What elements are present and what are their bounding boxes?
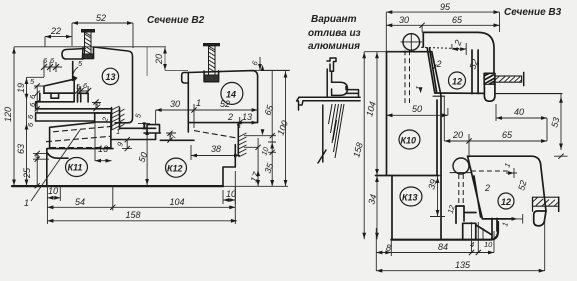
frame 13 body outline [94,47,133,123]
dim chain x37.2 [33,86,49,186]
lower screw shank dashed [459,174,463,204]
svg-text:К11: К11 [68,163,83,173]
dim 120 vertical [13,47,15,186]
frame 14 left tab [182,73,189,84]
callout circle 13 [102,68,118,84]
svg-text:К10: К10 [401,136,417,146]
callout circle K12 [166,158,187,177]
block K12 top ledges [112,133,161,140]
quarter hatched face [237,124,239,156]
gap dashed line lower sash [471,170,510,172]
callout circle 12 bottom [498,193,514,209]
frame sill band double line [36,109,112,121]
dim 158 vertical [364,52,400,240]
svg-text:63: 63 [16,144,26,154]
svg-text:158: 158 [125,210,140,220]
sash 12 top outline [423,32,494,72]
dim 2 top gap [452,43,466,55]
frame 13 left lower edge [72,62,74,81]
frame head profile 13 top tab [62,49,85,60]
svg-text:Вариант: Вариант [311,14,357,25]
block K13 outline [392,176,441,240]
screw 2 (anchor in frame 14) [204,44,220,82]
dim chain x258 [244,138,258,187]
dim 9 [122,140,132,149]
frame 13 hatched right face [112,108,120,130]
dim 50 [387,108,448,115]
svg-text:2: 2 [227,112,233,122]
screw shank dashed into wall [405,50,410,103]
dim 50 vertical [146,128,148,185]
svg-text:20: 20 [452,130,463,140]
svg-text:65: 65 [452,15,463,25]
drip hook on sash 12 [484,85,495,101]
screw head top (right drawing) [401,33,423,51]
svg-text:30: 30 [170,99,180,109]
block K11 outline [47,149,113,186]
dim chain x26.5 [27,77,45,186]
svg-text:95: 95 [440,2,451,12]
lower sash drip shoe [534,211,546,226]
drip right clip bar [346,87,359,98]
svg-text:104: 104 [169,197,184,207]
sash 12 inner glazing lines [472,50,478,94]
sash rail groove notch [40,93,74,102]
dim 38 [191,145,240,160]
dim 1 lower tick [506,214,523,224]
baseline under blocks [12,185,223,187]
dim 22 [45,37,72,47]
svg-text:Сечение В2: Сечение В2 [147,15,205,26]
screw head bottom (right drawing) [450,158,471,174]
dim 1 upper tick [506,168,517,178]
callout circle K13 [400,187,422,206]
svg-text:Сечение В3: Сечение В3 [504,7,562,18]
svg-text:52: 52 [220,99,230,109]
lower left step piece [456,206,476,223]
dim 39 vertical [440,176,442,217]
svg-text:52: 52 [96,13,106,23]
svg-text:2: 2 [436,59,442,69]
dim 40 [496,104,547,141]
dim 16 [95,123,112,161]
svg-text:120: 120 [3,107,13,122]
lower sash bottom step pieces [463,218,497,239]
glazing bead hatched block top [484,73,495,85]
svg-text:1: 1 [24,198,29,208]
block 2 step under frame [95,113,111,122]
lower sash 12 outline [468,156,546,219]
svg-text:22: 22 [50,26,61,36]
drip support ledge [160,139,194,141]
svg-text:12: 12 [452,77,462,87]
svg-text:14: 14 [226,90,236,100]
threshold ledge line [120,127,156,129]
short ledge left of sash bottom [433,95,444,97]
block K12 right notch [223,145,235,187]
dim 2-13 [236,117,258,128]
svg-text:19: 19 [16,83,26,93]
frame 13 screw slot walls [83,47,94,59]
svg-text:38: 38 [211,144,221,154]
leader 2 right sash [433,65,437,70]
callout circle 12 top [449,72,466,89]
window sill board dashed outline [50,122,111,148]
svg-text:К12: К12 [167,164,183,174]
leader 1 [31,130,80,201]
svg-text:13: 13 [106,72,116,82]
glazing bolt bottom right [533,197,559,213]
sash lower bottom line to right [495,93,562,95]
dim 30-52 line [156,104,258,128]
callout circle K10 [399,130,420,149]
drip clip angle piece [327,58,336,71]
dim 135 [376,218,544,271]
svg-text:К13: К13 [402,193,418,203]
dim chain x272 [244,136,276,153]
dim 6-6 top small [44,60,62,77]
dim 6 small rotated near x96 [92,101,101,109]
frame 14 body [188,71,257,132]
dim 5-6 small on bump [78,85,89,93]
callout circle K11 [66,158,88,177]
packing shim rect [147,125,160,133]
svg-text:10: 10 [226,189,236,199]
dim 53 vertical [554,94,568,157]
dim 10 bottom left [47,186,60,201]
sash 12 left upper edge [423,32,436,92]
svg-text:2: 2 [484,183,490,193]
svg-text:54: 54 [75,197,85,207]
svg-text:30: 30 [399,15,409,25]
casing bump 5-6 [78,93,89,102]
svg-text:40: 40 [514,107,524,117]
screw 1 (anchor in frame 13) [82,30,95,59]
svg-text:10: 10 [48,186,58,196]
svg-text:13: 13 [242,112,252,122]
svg-text:4: 4 [470,240,474,249]
svg-text:135: 135 [455,260,471,270]
dim 100 line [261,71,289,187]
dim 104-34 vertical [376,52,378,240]
svg-text:65: 65 [502,130,513,140]
extra arrows [258,64,274,186]
frame 14 screw slot [204,71,219,82]
level reference line y46.8 [14,46,166,48]
drip horizontal flange [299,97,360,101]
dim 95 [386,12,499,51]
dim 10 notch [223,171,235,204]
drip clip bump [332,82,348,95]
dim 65 line x272 + 6 mini dim [252,57,290,187]
dim 30-65 [386,25,499,32]
sash top rail sloped piece [44,79,74,93]
hatching: quarter face right of frame 14 [239,133,247,157]
drip nose hook [297,97,303,110]
glazing bolt top right [495,72,524,86]
wall block K10 outline [376,52,440,176]
svg-text:20: 20 [154,54,164,65]
wall edge below drip [318,105,326,163]
svg-text:1: 1 [116,127,120,136]
dim 8-84-4-10 bottom line [376,222,494,271]
dim 7 [166,133,176,140]
lower sash left slant edges [468,156,483,218]
dim 158 line [47,220,237,222]
svg-text:16: 16 [98,144,108,154]
wall hatch below drip [329,104,345,158]
svg-text:алюминия: алюминия [308,41,360,52]
dim 20-65 [444,96,547,157]
hatching: frame 13 right face [112,106,125,130]
baseline dim ref right [223,185,288,187]
casing band upper line [36,102,96,109]
dim 52 top [72,23,133,48]
svg-text:50: 50 [412,104,422,114]
gap dotted line top sash [421,47,466,49]
svg-text:1: 1 [196,98,201,108]
dimension slash ticks [35,23,564,255]
callout circle 14 [221,82,243,104]
drip vertical web [327,69,331,97]
dim 5 gap [138,123,150,128]
svg-text:12: 12 [501,197,511,207]
sill dashed inner lines [46,126,111,147]
svg-text:отлива из: отлива из [308,28,361,39]
tick arrows (45 deg) for small dims [41,64,59,70]
svg-text:25: 25 [22,167,32,179]
svg-text:84: 84 [438,242,448,252]
svg-text:10: 10 [484,240,493,249]
leader 5 top [73,67,78,75]
sash 12 bottom edge [435,92,486,94]
dim 54-104 line [47,186,235,224]
drip board dashed slope [194,131,238,139]
dim 20 vertical [147,47,188,76]
wall K10 right edge along sash [432,52,441,175]
dim 12 vertical [457,205,459,217]
